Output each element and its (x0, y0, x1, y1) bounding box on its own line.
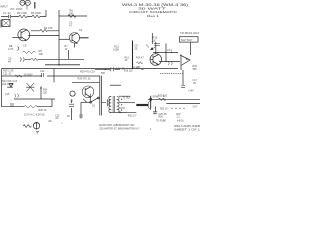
label rows lower left (2, 80, 18, 86)
capacitor C24 (154, 112, 157, 114)
diode D1 (7, 84, 13, 88)
svg-text:1K: 1K (153, 39, 156, 43)
wire drive rail (153, 51, 178, 53)
node INPUT label (0, 5, 23, 10)
label above transformer (101, 72, 106, 75)
wire q6 down (83, 94, 91, 103)
wire transformer primary risers (100, 76, 102, 116)
wire rail B (2, 75, 100, 77)
svg-text:R26 1K: R26 1K (39, 109, 47, 112)
switch S1 (81, 97, 99, 118)
wire q3 riser (151, 33, 153, 44)
wire bottom-left short rail (14, 98, 55, 100)
svg-text:R4 47K: R4 47K (44, 26, 53, 30)
node junction drive (157, 52, 158, 53)
transistor Q4 output arrow (180, 55, 190, 71)
node terminal circle (150, 98, 152, 100)
svg-text:T1 OUT: T1 OUT (123, 97, 132, 99)
node tap dots (171, 108, 184, 109)
resistor R10 (31, 58, 38, 61)
wire collector riser (165, 44, 167, 63)
svg-text:117V A.C. 6.3V 60: 117V A.C. 6.3V 60 (24, 113, 45, 116)
svg-text:CIRCUIT SCHEMATIC: CIRCUIT SCHEMATIC (129, 10, 177, 14)
wire interstage (31, 30, 59, 32)
transformer T1 (109, 96, 135, 113)
capacitor C15 (15, 94, 19, 98)
capacitor C25 (79, 115, 83, 117)
svg-text:C15: C15 (5, 93, 10, 96)
label taps (163, 95, 165, 101)
svg-text:R16 220: R16 220 (124, 71, 133, 73)
transistor Q1 (12, 29, 29, 41)
svg-text:R35 10: R35 10 (160, 109, 168, 111)
label 4 ohm (150, 129, 152, 131)
capacitor C3 label (69, 21, 73, 28)
wire vert x54 (53, 69, 55, 83)
capacitor C9 label (135, 45, 139, 51)
svg-text:560: 560 (101, 72, 106, 75)
capacitor C22 label (55, 114, 60, 120)
credits bottom center (99, 124, 140, 130)
transistor Q6 (82, 86, 94, 98)
capacitor C6 (8, 57, 24, 64)
capacitor C16 (181, 86, 185, 88)
svg-text:WM-3 M-30-36 (WM-4 36): WM-3 M-30-36 (WM-4 36) (122, 3, 188, 7)
main rail A (2, 68, 179, 70)
wire mid rail lower (45, 64, 80, 66)
svg-text:C12: C12 (40, 70, 45, 73)
resistor R14 (137, 62, 143, 70)
resistor R2 (19, 15, 27, 18)
svg-text:SPKR: SPKR (153, 96, 160, 99)
resistor R21 (15, 75, 22, 77)
svg-text:C5: C5 (23, 44, 27, 48)
node junction coupling (105, 69, 107, 71)
resistor R8 label (8, 44, 14, 51)
svg-text:4.7K: 4.7K (8, 47, 14, 51)
wire arrow mark (142, 69, 145, 70)
capacitor C24b (153, 112, 157, 114)
svg-text:INPUT: INPUT (0, 5, 8, 8)
wire output coupling row (95, 68, 120, 70)
bias adjust box (180, 37, 199, 42)
node secondary taps (121, 99, 122, 111)
label OUT (193, 106, 198, 108)
label C15 (5, 93, 10, 96)
wire top tick (34, 2, 36, 9)
wire plate rail (59, 15, 87, 17)
resistor R2 value label (17, 11, 27, 15)
resistor R15 label (153, 36, 158, 43)
wire grid riser (58, 10, 60, 65)
resistor R9 (23, 49, 44, 56)
svg-text:4-8-16: 4-8-16 (177, 121, 184, 123)
resistor R12 label (113, 45, 119, 52)
wire drive vert (155, 42, 157, 54)
node junction drive2 (165, 52, 166, 53)
wire fb short (110, 84, 121, 86)
wire corner down (51, 99, 53, 107)
wire Q1 collector (28, 34, 59, 36)
wire Q2 emitter drop (67, 50, 69, 59)
label R35 (160, 109, 168, 111)
title block (122, 3, 188, 18)
resistor R26 label (39, 109, 47, 112)
credits bottom right (174, 125, 201, 131)
phase splitter small circle (70, 91, 75, 102)
label on rail B (23, 74, 33, 76)
label right edge mid (193, 79, 198, 85)
node bias point speck (62, 122, 64, 124)
svg-text:56K: 56K (193, 68, 198, 71)
capacitor C13 (168, 62, 172, 66)
resistor R37 label (177, 114, 182, 119)
capacitor C18 label (116, 68, 125, 71)
svg-text:TO FDBK: TO FDBK (156, 121, 166, 123)
resistor R20 (159, 98, 166, 101)
capacitor C5 (18, 44, 27, 51)
label right edge top (193, 65, 198, 71)
wire dashed bias line (160, 72, 183, 74)
svg-text:1K: 1K (65, 48, 68, 51)
resistor R14 label (136, 57, 144, 60)
label R24 (43, 89, 48, 95)
wire riser to grid (45, 10, 47, 17)
arrowhead x41 (40, 86, 42, 88)
label between rails (78, 77, 92, 80)
svg-text:.02 600V: .02 600V (23, 74, 33, 76)
resistor R26 bottom (24, 105, 37, 108)
label below rail mid (124, 71, 133, 73)
svg-text:R29 470 .02: R29 470 .02 (78, 77, 92, 80)
input jack box (1, 20, 10, 28)
svg-text:100K: 100K (113, 48, 119, 52)
label C23 (67, 115, 70, 118)
svg-text:C1 .02: C1 .02 (3, 11, 11, 15)
svg-text:100: 100 (39, 52, 44, 56)
label sec winding (123, 97, 132, 99)
node junction (58, 64, 60, 66)
svg-text:SHEET 1 OF 1: SHEET 1 OF 1 (174, 128, 200, 131)
speaker (148, 96, 150, 110)
svg-text:60~: 60~ (49, 120, 54, 123)
resistor R6 (68, 15, 76, 18)
wire vert x41 (40, 87, 42, 100)
speaker lead thick (136, 104, 148, 106)
node junction railB (40, 75, 42, 77)
resistor R3 (32, 15, 40, 18)
wire vert x71 (70, 99, 72, 120)
svg-text:R33 2.7: R33 2.7 (128, 114, 137, 117)
label row heater (24, 113, 45, 116)
resistor R6 label (69, 8, 74, 15)
capacitor C12 (154, 44, 160, 46)
resistor R13 label (125, 57, 130, 63)
potentiometer hum balance (23, 122, 40, 130)
wire Q2 collector (79, 37, 89, 39)
wire rail B2 (72, 81, 100, 83)
wire secondary rail (111, 111, 137, 113)
capacitor C18a (42, 73, 44, 77)
label right of C18 (134, 66, 139, 69)
wire bottom rail left (2, 106, 53, 108)
transistor Q3 (150, 54, 162, 66)
label feedback row (156, 121, 184, 123)
wire screen riser (182, 70, 184, 85)
svg-text:C14: C14 (167, 48, 172, 52)
label 60cs (49, 120, 54, 123)
resistor R1 value label (3, 11, 11, 15)
capacitor C14 label (167, 48, 172, 52)
svg-text:Rev 1: Rev 1 (147, 14, 160, 18)
transistor Q7 driver arrow (146, 45, 155, 50)
svg-text:R30: R30 (134, 66, 139, 69)
wire left edge vertical (1, 69, 3, 107)
label row above rail B center (80, 71, 95, 74)
svg-text:R28 470 C19: R28 470 C19 (80, 71, 95, 74)
svg-text:220: 220 (43, 91, 48, 94)
capacitor C16a (11, 103, 13, 106)
wire box drop (189, 42, 191, 55)
label above bias box (180, 32, 200, 35)
wire B+ rail (148, 98, 200, 100)
resistor R7 label (65, 45, 69, 51)
ground hum pot (36, 132, 39, 134)
capacitor label above (40, 70, 45, 73)
transistor Q5 (26, 83, 35, 92)
node junction sec (119, 112, 121, 114)
wire cathode row (25, 58, 84, 60)
svg-text:VOL. CONT.: VOL. CONT. (10, 9, 23, 11)
resistor R3 value label (31, 11, 41, 15)
svg-text:R2 470K: R2 470K (17, 11, 27, 15)
svg-text:C18 .25: C18 .25 (116, 68, 125, 71)
wire Q2 base feed (59, 38, 70, 40)
capacitor C18 (111, 67, 114, 71)
svg-text:8417 8417: 8417 8417 (181, 39, 193, 42)
svg-text:C11 .02: C11 .02 (3, 73, 12, 76)
label +1.4V (188, 89, 194, 92)
capacitor C25 label (159, 114, 168, 119)
svg-text:R3 220K: R3 220K (31, 11, 41, 15)
resistor R20 label (158, 95, 168, 98)
svg-text:OUT: OUT (193, 106, 198, 108)
wire feedback riser (132, 41, 134, 69)
svg-text:+14V: +14V (188, 89, 194, 92)
resistor R4 label (44, 26, 53, 30)
wire input row (1, 16, 46, 18)
transistor Q2 (69, 33, 79, 48)
capacitor C1 (9, 15, 11, 18)
capacitor C23 (69, 104, 74, 106)
node junction drive3 (171, 52, 172, 53)
wire tap vert (155, 107, 157, 112)
wire amp rail (159, 60, 180, 62)
svg-text:TO BIAS ADJ: TO BIAS ADJ (180, 32, 200, 35)
label +40V rows (3, 70, 14, 76)
capacitor C20 coupling (102, 99, 110, 106)
label C4 (79, 29, 83, 32)
resistor R33 label (128, 114, 137, 117)
potentiometer VR1 volume control (20, 0, 30, 9)
label SPKR (153, 96, 160, 99)
wire B+ rail 2 (166, 103, 200, 105)
svg-text:320 WATER ST. BINGHAMTON N.Y.: 320 WATER ST. BINGHAMTON N.Y. (99, 127, 140, 130)
svg-text:R36: R36 (159, 116, 164, 118)
svg-text:1K: 1K (125, 59, 128, 62)
resistor R4 (40, 29, 47, 32)
